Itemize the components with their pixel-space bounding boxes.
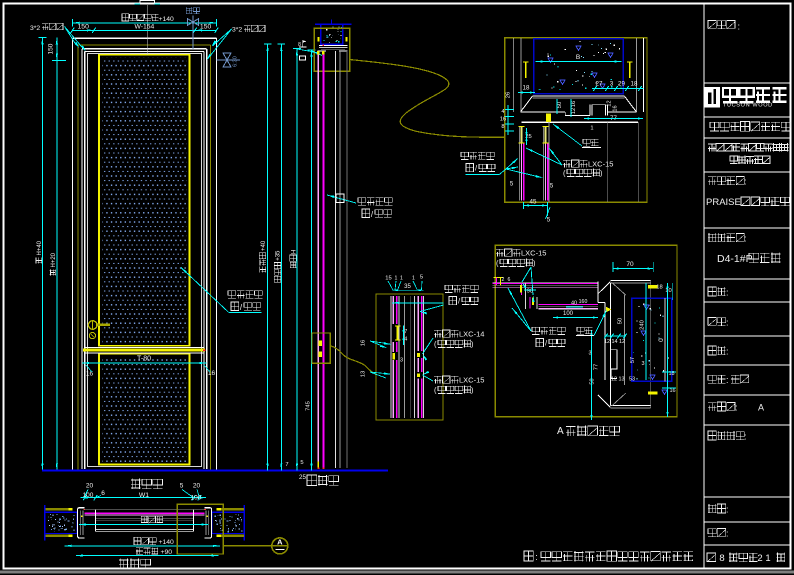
svg-text:8: 8 (501, 124, 504, 130)
md label LXC-15 (423, 371, 485, 395)
svg-text::: : (744, 234, 747, 244)
measure label (708, 287, 729, 298)
vsec rotated label line0 (259, 240, 267, 272)
tr wall block triangles (548, 46, 613, 89)
tr water label (461, 152, 543, 178)
svg-text:6:30: 6:30 (233, 56, 239, 67)
A node label (557, 426, 619, 438)
left vertical dim line 2 (52, 38, 66, 471)
vsec dim small texts bottom (285, 401, 311, 481)
address line1 (708, 143, 788, 151)
svg-text:5: 5 (420, 275, 423, 281)
hsec door leaf lines (84, 510, 204, 532)
vsec dim line 1 (278, 44, 286, 470)
svg-text:50: 50 (590, 378, 596, 384)
product label (708, 233, 747, 244)
vsec big S-curve to top detail (349, 60, 504, 138)
svg-text:50: 50 (618, 318, 624, 324)
top dim text wall opening +140 (122, 14, 174, 23)
vsec dim line 3 (308, 50, 316, 470)
tr clips flanking block (523, 62, 633, 79)
svg-text:(: ( (434, 386, 437, 395)
title order-no label (708, 21, 740, 32)
left dim text door height rotated (50, 252, 58, 275)
A detail zone box (495, 245, 677, 417)
svg-text:25: 25 (299, 474, 306, 481)
A dims top (613, 261, 653, 272)
project value PRAISE (706, 197, 789, 208)
split symbol right side (216, 53, 240, 67)
svg-text:16: 16 (613, 105, 619, 111)
address line2 (730, 156, 770, 164)
lower panel dot fill (103, 357, 188, 463)
vsec flag symbol (298, 40, 306, 60)
tr block inner dim (536, 54, 622, 63)
svg-text:LXC-15: LXC-15 (521, 249, 546, 258)
tr bottom dims (510, 182, 554, 224)
hsec wall width dim (64, 537, 220, 547)
vsec top wall block (321, 24, 343, 44)
svg-text:14: 14 (611, 339, 617, 345)
left dim text 150 rotated (48, 43, 55, 54)
svg-text:+40: +40 (261, 240, 267, 251)
svg-text:15: 15 (385, 276, 391, 282)
vsec top blue lintel line (315, 20, 351, 25)
svg-text:29: 29 (618, 81, 625, 88)
A wall block blue (632, 298, 672, 381)
svg-text:16: 16 (361, 340, 367, 346)
svg-text:5: 5 (300, 460, 303, 466)
svg-text:100: 100 (563, 311, 574, 317)
elevation finish label water-based leather (181, 268, 262, 313)
tr lower verticals (549, 122, 638, 202)
svg-text:5: 5 (510, 182, 514, 188)
A wall triangles (641, 305, 667, 395)
hsec top dim texts (83, 483, 202, 502)
elevation centerline top (147, 5, 149, 55)
svg-text:70: 70 (626, 261, 634, 268)
hsec detail-A zone box (177, 504, 223, 554)
hsec hole width dim (76, 547, 219, 556)
svg-text:53: 53 (629, 377, 635, 383)
svg-text:745: 745 (305, 401, 311, 411)
md top dims (385, 275, 423, 292)
detail A callout circle (223, 537, 288, 554)
version label (708, 402, 764, 413)
svg-text:D4-1#P: D4-1#P (717, 253, 753, 265)
svg-text::: : (726, 529, 729, 539)
svg-text:.: . (691, 553, 694, 563)
A mid clips (520, 283, 537, 309)
svg-text:13: 13 (618, 377, 624, 383)
tr detail zone box (505, 38, 647, 202)
svg-text:1: 1 (400, 276, 403, 282)
tr verticals above profile (514, 38, 644, 112)
left vertical dim line full height (39, 38, 47, 471)
tr jinshen label (553, 124, 601, 148)
lower panel yellow frame (99, 354, 190, 465)
hsec right jamb profile (204, 508, 212, 538)
svg-text:3*2: 3*2 (232, 27, 242, 34)
svg-text:T-80: T-80 (137, 356, 151, 363)
md detail zone box (376, 294, 443, 420)
hsec right wall block (212, 505, 244, 540)
top dim line 1 wall opening (72, 19, 216, 27)
project label (708, 177, 747, 187)
svg-text:(: ( (563, 169, 566, 178)
svg-text:12: 12 (571, 108, 577, 114)
svg-text::: : (726, 375, 729, 385)
svg-text:5: 5 (180, 483, 184, 490)
vsec leaf back line (335, 51, 337, 468)
elevation architrave inner white (85, 51, 204, 469)
svg-text:/: / (458, 297, 461, 306)
svg-text:): ) (471, 386, 474, 395)
svg-text:45: 45 (530, 199, 537, 206)
tr dims middle (525, 99, 643, 145)
svg-text:240: 240 (640, 320, 646, 330)
vsec dim line 2 (293, 49, 301, 471)
vsec squiggle to mid detail (330, 346, 376, 375)
A leaf upper end clip (494, 278, 504, 286)
top dim texts 150 W-154 150 (78, 24, 212, 31)
svg-text:18: 18 (656, 285, 662, 291)
A small dims left (502, 277, 598, 319)
svg-text:A: A (277, 537, 283, 546)
svg-text:5: 5 (547, 217, 551, 224)
vsec detail zone box top (314, 28, 349, 71)
svg-text:): ) (533, 259, 536, 268)
svg-text:16: 16 (669, 388, 675, 394)
page number row (707, 553, 785, 565)
A jinshen label (576, 311, 607, 336)
svg-text:7: 7 (285, 462, 288, 468)
svg-text:12: 12 (619, 339, 625, 345)
mid rail dim (82, 356, 215, 378)
svg-text:100: 100 (83, 492, 94, 499)
md left clips (393, 325, 401, 359)
bottom note text (524, 551, 694, 563)
svg-text:16: 16 (500, 117, 506, 123)
hsec label (119, 559, 151, 570)
svg-text:2 1: 2 1 (757, 553, 770, 564)
label 3x2 gap left (30, 23, 86, 52)
hsec left jamb profile (78, 508, 86, 538)
svg-text:3: 3 (588, 351, 591, 357)
company name (710, 122, 790, 132)
vsec B zone box (312, 333, 330, 363)
vsec head profile (317, 37, 347, 51)
svg-text::: : (735, 403, 738, 413)
A yellow arrow (606, 307, 612, 313)
svg-text:150: 150 (48, 43, 55, 54)
A water label (508, 288, 565, 348)
svg-text:B: B (576, 54, 580, 61)
svg-text::: : (726, 347, 729, 357)
md left dims (361, 325, 408, 378)
vsec rotated label line2 (290, 250, 298, 268)
fig-no label (708, 529, 729, 539)
svg-text:20: 20 (86, 483, 94, 490)
svg-text:12: 12 (604, 339, 610, 345)
top center box symbol (135, 1, 161, 5)
tr head profile (521, 96, 639, 122)
elevation architrave outer white (82, 49, 207, 469)
svg-text:8: 8 (298, 42, 301, 48)
svg-text:1: 1 (395, 276, 398, 282)
svg-text:8: 8 (719, 553, 724, 564)
tr dims top (518, 81, 643, 94)
md right leaf lines (414, 296, 423, 418)
draw label (708, 318, 729, 328)
svg-text::: : (726, 318, 729, 328)
md left leaf lines (391, 296, 399, 418)
split symbol top (186, 7, 200, 49)
product value D4-1 (717, 253, 781, 266)
elevation label (131, 479, 163, 490)
svg-text::: : (726, 505, 729, 515)
A label LXC-15 (496, 249, 546, 303)
svg-text:26: 26 (506, 92, 512, 98)
svg-text:16: 16 (571, 101, 577, 107)
vsec label (307, 475, 339, 486)
logo mark (705, 87, 721, 108)
svg-text:3*2: 3*2 (30, 25, 40, 32)
svg-text:57: 57 (630, 357, 636, 363)
svg-text:13: 13 (361, 371, 367, 377)
hsec leaf width dim (79, 516, 208, 526)
hsec top dim line (80, 490, 206, 501)
tr dims left column (500, 92, 514, 135)
svg-text:6: 6 (508, 277, 511, 283)
md right clips (417, 353, 420, 377)
vsec leaf pink line (317, 51, 319, 468)
mid rail band (83, 347, 205, 353)
svg-text:W-154: W-154 (134, 24, 154, 31)
svg-text:): ) (600, 169, 603, 178)
svg-text:20: 20 (193, 483, 201, 490)
vsec leader arrows to leaf tops (297, 49, 323, 56)
A yellow bars (648, 285, 658, 395)
svg-text:W1: W1 (139, 492, 149, 499)
svg-text:18: 18 (631, 81, 638, 88)
upper panel dot fill (103, 57, 188, 343)
svg-text::: : (738, 22, 741, 32)
svg-text:): ) (471, 340, 474, 349)
tr leaf assemblies (519, 126, 549, 200)
md label LXC-14 (423, 330, 485, 361)
svg-text:+140: +140 (159, 16, 175, 23)
logo text TUCSON WOOD (723, 88, 787, 108)
A leaf upper lines (493, 282, 598, 287)
svg-text:(: ( (434, 340, 437, 349)
svg-text:1: 1 (590, 126, 593, 132)
elevation opening rect olive (78, 45, 210, 470)
svg-text:+140: +140 (159, 539, 175, 546)
elevation outer wall rect white (72, 38, 216, 470)
vsec dim line 0 (264, 44, 272, 470)
scale label (708, 504, 729, 515)
svg-text:/: / (545, 339, 548, 348)
svg-text:150: 150 (200, 24, 212, 31)
A dims right column (656, 283, 676, 417)
svg-text:+35: +35 (276, 250, 282, 261)
svg-text:LXC-15: LXC-15 (588, 160, 613, 169)
label 3x2 gap right (207, 25, 266, 60)
svg-text:98: 98 (527, 289, 533, 295)
svg-text:40: 40 (571, 301, 577, 307)
floor line blue (42, 469, 388, 471)
svg-text:1: 1 (412, 276, 415, 282)
tr profile label LXC-15 (526, 148, 613, 178)
left dim text hole height rotated (36, 240, 43, 263)
svg-text:4: 4 (404, 337, 407, 343)
vsec wall line a (339, 51, 341, 468)
svg-text:/: / (475, 164, 478, 173)
svg-text::: : (535, 552, 538, 562)
svg-text:H+40: H+40 (37, 240, 43, 255)
svg-text:35: 35 (404, 284, 411, 290)
svg-text:3: 3 (400, 358, 403, 364)
hsec left wall block (45, 505, 77, 540)
svg-text:5: 5 (550, 184, 554, 190)
svg-text:2: 2 (502, 277, 505, 283)
vsec leaf magenta line (318, 51, 325, 469)
door keyhole (89, 333, 95, 339)
svg-text:LXC-15: LXC-15 (459, 376, 484, 385)
svg-text:/: / (240, 303, 243, 312)
svg-text:150: 150 (78, 24, 90, 31)
vsec wall line b (346, 51, 348, 468)
vsec finish label (327, 194, 392, 219)
svg-text:(: ( (496, 259, 499, 268)
svg-text:12: 12 (611, 377, 617, 383)
svg-text:77: 77 (594, 364, 600, 370)
svg-text:PRAISE: PRAISE (706, 197, 741, 208)
svg-text:160: 160 (579, 299, 588, 305)
svg-text:7: 7 (404, 329, 407, 335)
elevation door leaf outline (87, 53, 201, 466)
svg-text:TUCSON WOOD: TUCSON WOOD (723, 103, 773, 109)
check label (708, 346, 729, 357)
svg-text:16: 16 (86, 371, 94, 378)
title block frame (704, 4, 791, 569)
svg-text:50: 50 (557, 102, 563, 108)
svg-text:/: / (371, 210, 374, 219)
top dim line 2 segments (71, 28, 219, 33)
A dims mid cluster (588, 283, 646, 420)
svg-text:100: 100 (191, 495, 202, 502)
bottom band (0, 571, 794, 574)
svg-text:10: 10 (665, 288, 671, 294)
md mid leaf lines (405, 296, 411, 418)
svg-text:3: 3 (641, 361, 644, 367)
svg-text:18: 18 (523, 85, 530, 92)
approve label (708, 375, 749, 385)
door handle (88, 321, 110, 330)
A jamb profile (598, 280, 651, 408)
md water label (392, 285, 478, 314)
svg-text::: : (726, 288, 729, 298)
svg-text:3: 3 (610, 81, 614, 88)
svg-text:6: 6 (101, 490, 105, 497)
owner confirm label (708, 431, 747, 442)
svg-text:A: A (758, 403, 764, 413)
svg-text::: : (744, 177, 747, 187)
svg-text::: : (744, 432, 747, 442)
svg-text:+90: +90 (161, 549, 173, 556)
svg-text:A: A (557, 426, 564, 437)
vsec rotated label line1 (274, 250, 282, 282)
svg-text:H+20: H+20 (51, 252, 57, 267)
tr wall block blue (534, 39, 624, 94)
svg-text:0: 0 (658, 338, 665, 342)
A leaf lower lines (539, 305, 598, 310)
svg-text:LXC-14: LXC-14 (459, 330, 484, 339)
upper panel yellow frame (99, 55, 190, 346)
